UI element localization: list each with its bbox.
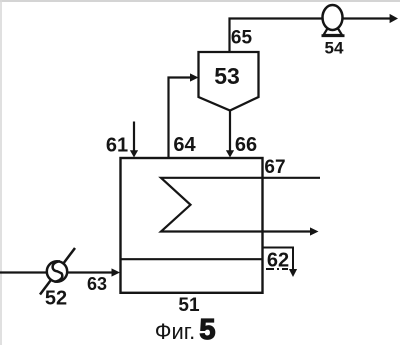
svg-text:Фиг.: Фиг. (155, 319, 195, 344)
svg-text:54: 54 (325, 39, 344, 58)
svg-text:51: 51 (178, 295, 200, 316)
svg-text:67: 67 (264, 157, 285, 178)
svg-text:61: 61 (106, 135, 128, 157)
svg-text:53: 53 (214, 63, 240, 89)
svg-text:5: 5 (199, 314, 215, 345)
svg-text:63: 63 (87, 274, 107, 294)
svg-text:66: 66 (235, 134, 257, 156)
svg-text:62: 62 (267, 250, 289, 272)
svg-text:64: 64 (173, 134, 196, 156)
svg-text:65: 65 (231, 28, 253, 49)
svg-text:52: 52 (45, 288, 67, 310)
